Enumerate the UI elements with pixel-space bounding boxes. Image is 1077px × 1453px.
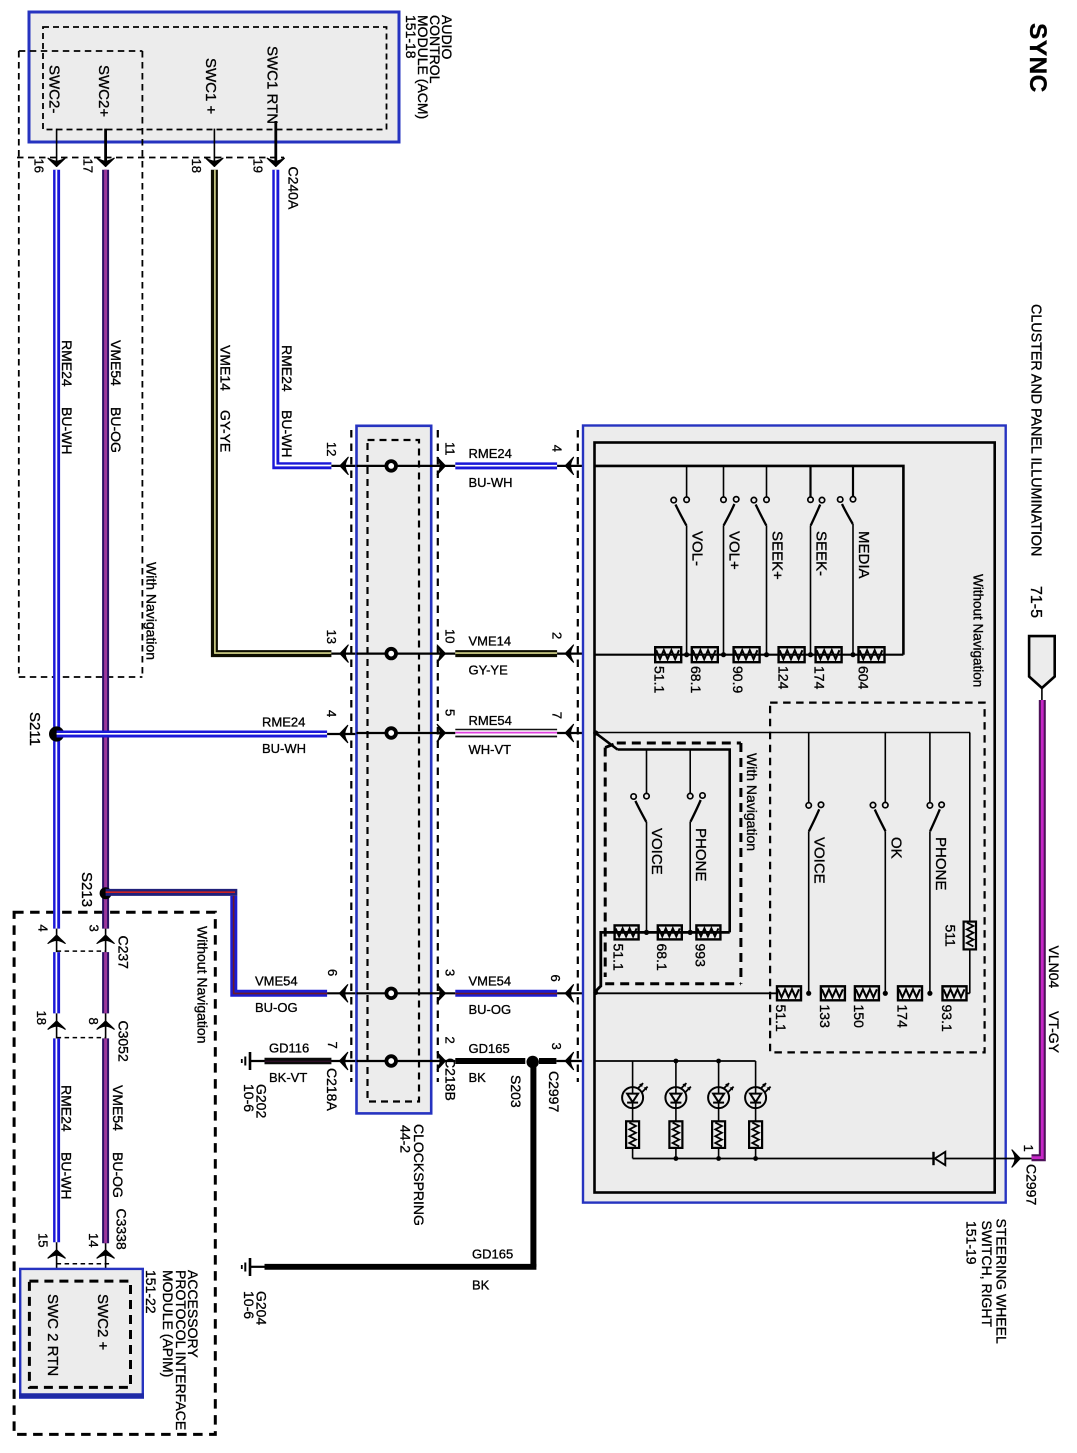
svg-text:8: 8 (86, 1018, 101, 1025)
svg-text:BU-OG: BU-OG (110, 1152, 126, 1198)
svg-text:10-6: 10-6 (241, 1084, 257, 1112)
svg-text:VME54: VME54 (110, 1085, 126, 1131)
svg-text:SWC2 +: SWC2 + (94, 1294, 111, 1351)
clockspring terminal row1 (386, 461, 396, 471)
svg-text:4: 4 (324, 710, 339, 717)
junction SEEK- (808, 652, 813, 657)
svg-text:C3052: C3052 (116, 1021, 132, 1062)
wire GD165 BK bottom (251, 1247, 536, 1293)
pin 10 arrow (437, 629, 457, 662)
clockspring terminal row3 (386, 728, 396, 738)
svg-text:C3338: C3338 (114, 1209, 130, 1250)
svg-text:C237: C237 (116, 936, 132, 970)
junction S203 vertical wire down (530, 1062, 536, 1267)
svg-text:SYNC: SYNC (1024, 23, 1051, 93)
junction S213 (78, 872, 112, 907)
connector C218A dashed line (324, 430, 351, 1111)
wire VME54 BU-OG S213 L to clockspring pin6 (106, 892, 357, 1015)
junction RME54 split (593, 730, 598, 735)
junction VOICE (right) (806, 991, 811, 996)
resistor 511 vertical (943, 733, 977, 994)
wire RME24 BU-WH pin19 vertical + elbow to clockspring pin12 (276, 170, 332, 466)
pin 18 stub (189, 129, 223, 173)
svg-text:4: 4 (550, 445, 565, 452)
svg-text:VME54: VME54 (108, 340, 124, 386)
svg-text:71-5: 71-5 (1027, 586, 1044, 618)
svg-text:VOICE: VOICE (648, 828, 665, 875)
wire LED bottom bus to diode (633, 1158, 933, 1160)
resistor 93.1 (right group) (939, 986, 967, 1032)
svg-text:151-19: 151-19 (964, 1221, 980, 1265)
resistor 51.1 (with nav) (611, 925, 639, 971)
svg-text:C2997: C2997 (1024, 1164, 1040, 1205)
svg-text:WH-VT: WH-VT (469, 742, 512, 757)
svg-text:RME24: RME24 (59, 340, 75, 387)
svg-text:RME54: RME54 (469, 713, 512, 728)
resistor 68.1 (with nav) (654, 925, 682, 971)
svg-text:PHONE: PHONE (932, 837, 949, 890)
resistor 133 (right group) (817, 986, 845, 1028)
pin 3 arrow (box C2997 row5) (549, 1043, 574, 1070)
resistor 90.9 (without nav) (730, 647, 760, 693)
label CLOCKSPRING 44-2 (397, 1124, 427, 1226)
switch VOL- (671, 466, 705, 655)
pin 16 stub (32, 129, 66, 173)
pin 1 arrow (C2997 right) (1012, 1145, 1040, 1206)
wire RME24 BU-WH pin16 vertical (56, 170, 75, 1243)
svg-text:17: 17 (81, 159, 96, 173)
svg-text:14: 14 (86, 1233, 101, 1247)
module CLOCKSPRING box (357, 426, 432, 1114)
clockspring terminal row5 (386, 1056, 396, 1066)
wire diode to pin1 (945, 1158, 1031, 1160)
dashed box With Navigation (top left) (19, 51, 143, 677)
svg-text:90.9: 90.9 (730, 666, 746, 693)
svg-text:4: 4 (36, 925, 51, 932)
label STEERING WHEEL SWITCH, RIGHT 151-19 (964, 1219, 1010, 1344)
svg-text:BU-WH: BU-WH (262, 741, 306, 756)
svg-text:S203: S203 (508, 1075, 524, 1108)
pin 11 arrow (437, 442, 457, 475)
svg-text:GD165: GD165 (469, 1041, 510, 1056)
pin 6 arrow (box C2997) (548, 975, 574, 1002)
resistor 993 (with nav) (692, 925, 720, 967)
svg-text:6: 6 (548, 975, 563, 982)
pin 3 arrow (437, 969, 457, 1002)
svg-text:51.1: 51.1 (773, 1005, 789, 1032)
svg-text:RME24: RME24 (469, 446, 512, 461)
LED 1 (622, 1061, 648, 1121)
connector C237 (36, 925, 132, 970)
svg-text:SWC2-: SWC2- (46, 65, 63, 113)
svg-text:SWC1 +: SWC1 + (202, 58, 219, 115)
pin 7 arrow (clockspring left) (325, 1042, 348, 1070)
wire row1 thin line into clockspring pin12 (331, 465, 356, 467)
resistor 174 (right group) (894, 986, 922, 1028)
LED resistor 4 (749, 1121, 762, 1158)
svg-text:BU-OG: BU-OG (469, 1002, 512, 1017)
wire row2 thin line into clockspring pin13 (331, 652, 356, 654)
svg-text:19: 19 (251, 159, 266, 173)
junction VOL- (684, 652, 689, 657)
svg-text:BU-WH: BU-WH (279, 410, 295, 457)
junction PHONE (with nav) (688, 930, 693, 935)
svg-text:1: 1 (1021, 1145, 1036, 1152)
svg-text:With Navigation: With Navigation (144, 562, 160, 660)
switch PHONE (with nav) (688, 750, 710, 933)
resistor 150 (right group) (851, 986, 879, 1028)
svg-text:RME24: RME24 (279, 345, 295, 392)
resistor 68.1 (without nav) (688, 647, 718, 693)
svg-text:C218B: C218B (443, 1058, 459, 1101)
LED 4 (745, 1061, 771, 1121)
ground G204 (241, 1258, 270, 1325)
pin 5 arrow (437, 709, 457, 742)
connector C240A dashed line (17, 157, 284, 159)
svg-text:VOL-: VOL- (688, 531, 705, 566)
module STEERING WHEEL SWITCH box (583, 426, 1006, 1203)
dashed box with nav right (VOICE OK PHONE) (770, 703, 985, 1053)
svg-text:Without Navigation: Without Navigation (971, 574, 986, 687)
pin 2 arrow (right row5) (437, 1037, 457, 1070)
wire bus GD165 LED top (595, 1060, 756, 1062)
svg-text:151-22: 151-22 (143, 1270, 159, 1314)
wire RME54 WH-VT row3 right segment (455, 713, 594, 757)
svg-text:GD165: GD165 (472, 1247, 513, 1262)
svg-text:With Navigation: With Navigation (744, 753, 760, 851)
svg-text:VME54: VME54 (469, 973, 512, 988)
clockspring terminal row4 (386, 989, 396, 999)
wire row2 through clockspring (357, 652, 456, 654)
svg-text:93.1: 93.1 (939, 1005, 955, 1032)
svg-text:174: 174 (894, 1005, 910, 1029)
LED 2 (665, 1059, 691, 1122)
svg-text:C218A: C218A (324, 1068, 340, 1111)
wire bus VME54 row4 into box (595, 992, 777, 994)
svg-text:VME14: VME14 (217, 345, 233, 391)
svg-text:MODULE (APIM): MODULE (APIM) (160, 1270, 176, 1377)
resistor 604 (without nav) (856, 647, 885, 689)
switch VOICE (with nav) (631, 750, 665, 933)
switch SEEK- (808, 466, 830, 655)
wire GD165 BK row5 segment (455, 1041, 594, 1085)
module ACM box (29, 12, 399, 142)
resistor 51.1 (without nav) (652, 647, 682, 693)
connector C3052 (34, 1011, 132, 1062)
svg-text:S211: S211 (26, 712, 43, 746)
junction MEDIA (850, 652, 855, 657)
svg-text:3: 3 (443, 969, 458, 976)
switch VOICE (right) (806, 733, 828, 994)
svg-text:44-2: 44-2 (397, 1125, 413, 1153)
pin 17 stub (81, 129, 115, 173)
switch PHONE (right) (927, 733, 949, 994)
svg-text:SEEK+: SEEK+ (768, 531, 785, 580)
junction LED2 bottom (674, 1156, 679, 1161)
junction LED4 bottom (753, 1156, 758, 1161)
junction VOL+ (721, 652, 726, 657)
svg-text:BU-WH: BU-WH (469, 475, 513, 490)
svg-text:VOICE: VOICE (811, 837, 828, 884)
svg-text:SWC2+: SWC2+ (95, 65, 112, 117)
svg-text:174: 174 (812, 666, 828, 690)
dashed box Without Navigation (bottom left) (14, 912, 215, 1434)
svg-text:BK: BK (472, 1278, 490, 1293)
svg-text:SWC1 RTN: SWC1 RTN (263, 46, 280, 124)
wire bus With Navigation top (618, 750, 730, 933)
resistor 174 (without nav) (812, 647, 842, 689)
svg-text:VT-GY: VT-GY (1046, 1011, 1062, 1054)
resistor 51.1 (right group) (773, 986, 801, 1032)
svg-text:151-18: 151-18 (403, 15, 419, 59)
wire row3 through clockspring (357, 732, 456, 734)
svg-text:150: 150 (851, 1005, 867, 1029)
dashed box With Navigation (in box) (605, 743, 741, 984)
switch VOL+ (721, 466, 743, 655)
svg-text:RME24: RME24 (262, 715, 305, 730)
svg-text:GY-YE: GY-YE (217, 410, 233, 452)
switch SEEK+ (751, 466, 785, 655)
svg-text:124: 124 (776, 666, 792, 690)
svg-text:2: 2 (550, 632, 565, 639)
svg-text:51.1: 51.1 (611, 944, 627, 971)
svg-text:VME14: VME14 (469, 634, 512, 649)
svg-text:15: 15 (36, 1233, 51, 1247)
svg-text:10-6: 10-6 (241, 1291, 257, 1319)
svg-text:3: 3 (87, 925, 102, 932)
svg-text:C240A: C240A (285, 167, 301, 210)
junction LED3 bottom (716, 1156, 721, 1161)
svg-text:18: 18 (189, 159, 204, 173)
svg-text:5: 5 (443, 709, 458, 716)
pin 12 arrow (324, 442, 348, 475)
LED 3 (708, 1059, 734, 1122)
svg-text:51.1: 51.1 (652, 666, 668, 693)
svg-text:C2997: C2997 (546, 1071, 562, 1112)
svg-text:S213: S213 (78, 872, 95, 907)
connector C3338 (36, 1209, 130, 1282)
pin 4 arrow (clockspring left) (324, 710, 348, 743)
junction S203 (508, 1056, 539, 1108)
ground G202 (241, 1052, 270, 1118)
svg-text:11: 11 (443, 442, 458, 456)
svg-text:16: 16 (32, 159, 47, 173)
svg-text:Without Navigation: Without Navigation (195, 926, 211, 1044)
svg-text:SWITCH, RIGHT: SWITCH, RIGHT (979, 1221, 995, 1328)
svg-text:BU-WH: BU-WH (59, 1152, 75, 1199)
wire VME54 BU-OG row4 right segment (455, 973, 594, 1017)
svg-text:12: 12 (324, 442, 339, 456)
svg-text:511: 511 (943, 925, 959, 948)
svg-text:604: 604 (856, 666, 872, 690)
pin 2 arrow (box C2997) (550, 632, 574, 662)
svg-text:VOL+: VOL+ (725, 531, 742, 570)
svg-text:GY-YE: GY-YE (469, 663, 509, 678)
svg-text:BU-OG: BU-OG (255, 1000, 298, 1015)
svg-text:MEDIA: MEDIA (855, 531, 872, 579)
junction SEEK+ (764, 652, 769, 657)
diode (934, 1152, 946, 1165)
wire VME14 GY-YE pin18 vertical + elbow to clockspring pin13 (214, 170, 331, 654)
switch MEDIA (838, 466, 872, 655)
svg-text:BK-VT: BK-VT (269, 1070, 307, 1085)
label AUDIO CONTROL MODULE (ACM) 151-18 (403, 15, 455, 119)
svg-text:GD116: GD116 (269, 1041, 309, 1056)
svg-text:BU-WH: BU-WH (59, 407, 75, 454)
svg-text:BK: BK (469, 1070, 487, 1085)
svg-text:3: 3 (549, 1043, 564, 1050)
svg-text:SEEK-: SEEK- (812, 531, 829, 576)
junction exit (with nav) (593, 990, 598, 995)
LED resistor 3 (712, 1121, 725, 1158)
pin 19 stub SWC1 RTN (251, 121, 285, 173)
svg-text:18: 18 (34, 1011, 49, 1025)
wire GD116 BK-VT to clockspring pin7 (251, 1041, 357, 1086)
LED resistor 2 (669, 1121, 682, 1158)
wire VME54 BU-OG pin17 vertical (106, 170, 126, 1244)
wire row1 through clockspring (357, 465, 456, 467)
LED resistor 1 (626, 1121, 639, 1158)
svg-text:6: 6 (325, 969, 340, 976)
connector 71-5 off-page pentagon (1027, 586, 1055, 700)
connector C218B dashed line (438, 430, 459, 1101)
svg-text:7: 7 (325, 1042, 340, 1049)
wire resistor row to 511 (967, 992, 970, 994)
wire bus RME24 top (without nav) (595, 466, 904, 655)
resistor 124 (without nav) (776, 647, 805, 689)
svg-text:SWC 2 RTN: SWC 2 RTN (44, 1294, 61, 1376)
label ACCESSORY PROTOCOL INTERFACE MODULE (APIM) 151-22 (143, 1270, 201, 1430)
wire VLN04 VT-GY (1032, 700, 1063, 1158)
wire diagonal to With Navigation bus (596, 733, 618, 749)
pin 13 arrow (324, 630, 348, 663)
wire row5 through clockspring (357, 1060, 456, 1062)
wire With Navigation resistor row + exit (595, 932, 730, 991)
junction VOICE (with nav) (644, 930, 649, 935)
svg-text:13: 13 (324, 630, 339, 644)
svg-text:OK: OK (887, 837, 904, 859)
junction PHONE (right) (927, 991, 932, 996)
svg-text:7: 7 (550, 712, 565, 719)
svg-text:PHONE: PHONE (692, 828, 709, 881)
pin 4 arrow (box C2997) (550, 445, 574, 475)
wire VME14 GY-YE row2 right segment (455, 634, 594, 678)
pin 7 arrow (box C2997) (550, 712, 574, 742)
svg-text:RME24: RME24 (59, 1085, 75, 1132)
svg-text:10: 10 (443, 629, 458, 643)
junction OK (right) (883, 991, 888, 996)
wire bus VME14 resistor row (without nav) (595, 654, 904, 656)
svg-text:993: 993 (692, 944, 708, 968)
wire bus RME54 (row3 into box) (595, 732, 971, 734)
svg-text:68.1: 68.1 (654, 944, 670, 971)
connector C2997 dashed line (546, 430, 578, 1112)
pin 6 arrow (clockspring left) (325, 969, 348, 1002)
wire RME24 BU-WH S211 horizontal to clockspring pin4 (57, 715, 357, 757)
svg-text:2: 2 (443, 1037, 458, 1044)
wire RME24 BU-WH row1 right segment (455, 446, 594, 490)
svg-text:133: 133 (817, 1005, 833, 1029)
svg-text:VME54: VME54 (255, 974, 298, 989)
module APIM box (19, 1269, 144, 1398)
wire row4 through clockspring (357, 992, 456, 994)
svg-text:68.1: 68.1 (688, 666, 704, 693)
switch OK (right) (870, 733, 904, 994)
clockspring terminal row2 (386, 649, 396, 659)
svg-text:CLUSTER AND PANEL ILLUMINATION: CLUSTER AND PANEL ILLUMINATION (1028, 304, 1044, 556)
junction S211 (26, 712, 64, 746)
svg-text:BU-OG: BU-OG (108, 407, 124, 453)
svg-text:VLN04: VLN04 (1046, 946, 1062, 989)
